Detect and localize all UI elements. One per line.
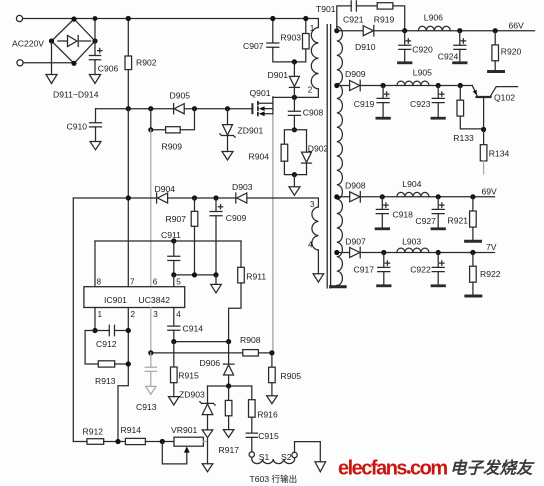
svg-text:D908: D908	[345, 180, 366, 190]
svg-text:L903: L903	[402, 236, 421, 246]
svg-text:T603 行输出: T603 行输出	[250, 473, 298, 484]
ground C922	[432, 284, 445, 287]
wire bridge right riser to bus1	[94, 19, 96, 42]
svg-text:C920: C920	[412, 44, 433, 54]
ground C920	[399, 61, 412, 64]
svg-text:L905: L905	[413, 68, 432, 78]
wire rail4 7V	[337, 252, 495, 254]
MOSFET Q901	[252, 97, 273, 116]
node rail VR901 tap	[160, 439, 165, 444]
logo elecfans.com	[338, 458, 447, 480]
wire bus2 Vcc rail	[96, 108, 253, 110]
svg-text:R920: R920	[501, 46, 522, 56]
svg-text:7V: 7V	[486, 242, 497, 252]
wire rail 66V	[337, 30, 535, 32]
svg-text:R133: R133	[453, 133, 474, 143]
resistor R911	[229, 241, 245, 342]
svg-text:R908: R908	[240, 335, 261, 345]
node rail3 C927	[436, 194, 441, 199]
node rail1 R920	[493, 28, 498, 33]
node rail1 C920	[402, 28, 407, 33]
capacitor C915	[246, 433, 257, 452]
svg-text:1: 1	[98, 310, 103, 319]
svg-text:D905: D905	[170, 90, 191, 100]
capacitor C910	[90, 109, 102, 142]
capacitor C924	[454, 31, 466, 62]
transistor Q102	[472, 86, 517, 130]
ground R917	[223, 430, 234, 438]
node tap2	[334, 83, 339, 88]
svg-text:C912: C912	[96, 339, 117, 349]
node bus1 C907	[270, 16, 275, 21]
node rail3 R921	[470, 194, 475, 199]
node line387 D906	[226, 383, 231, 388]
node bridge bottom	[71, 61, 76, 66]
ground R922	[466, 295, 481, 298]
ground R915	[169, 397, 180, 405]
svg-text:D903: D903	[232, 182, 253, 192]
wire to ground below D902	[293, 175, 295, 187]
node rail2 C919	[381, 83, 386, 88]
diode D901	[289, 62, 299, 98]
node Q102 emitter R133	[481, 127, 486, 132]
svg-text:C907: C907	[243, 41, 264, 51]
diode D910	[363, 25, 374, 36]
resistor R903	[294, 19, 309, 62]
svg-text:C906: C906	[98, 64, 119, 74]
node line1 left	[171, 339, 176, 344]
capacitor C909	[210, 198, 223, 275]
svg-text:8: 8	[97, 278, 102, 287]
resistor R917	[225, 386, 232, 430]
svg-text:69V: 69V	[482, 186, 498, 196]
node line1 right	[226, 339, 231, 344]
capacitor C917	[378, 253, 390, 285]
svg-text:UC3842: UC3842	[139, 295, 171, 305]
ground below D902	[289, 187, 300, 196]
zener ZD903	[200, 386, 215, 430]
ground C917	[378, 284, 391, 287]
svg-text:C919: C919	[354, 99, 375, 109]
svg-text:ZD903: ZD903	[179, 389, 205, 399]
node pin5 C911	[171, 272, 176, 277]
svg-text:2: 2	[131, 310, 136, 319]
node bus3 C909	[213, 195, 218, 200]
svg-text:R922: R922	[480, 269, 501, 279]
node R909 left corner	[148, 127, 153, 132]
svg-text:D904: D904	[155, 184, 176, 194]
wire stub ground pin5 rail	[215, 275, 217, 285]
wire pin5 stub	[173, 275, 175, 287]
diode D909	[350, 80, 361, 91]
capacitor C908	[288, 97, 300, 129]
ground C906	[89, 75, 100, 84]
svg-text:D901: D901	[268, 70, 289, 80]
resistor R134	[480, 130, 487, 175]
svg-text:R909: R909	[162, 142, 183, 152]
svg-text:IC901: IC901	[104, 295, 127, 305]
node C908 bottom	[292, 127, 297, 132]
capacitor C919	[377, 86, 389, 117]
IC U901 UC3842	[84, 287, 185, 308]
node snubber join	[292, 59, 297, 64]
svg-text:66V: 66V	[509, 21, 525, 31]
wire pin4 to ground	[317, 250, 319, 274]
node bus2 R902	[126, 106, 131, 111]
resistor R902	[125, 19, 132, 109]
node R904 D902 bottom	[292, 172, 297, 177]
node pin1 C912	[92, 328, 97, 333]
node tap3	[334, 194, 339, 199]
inductor L905	[397, 81, 429, 85]
svg-text:R912: R912	[83, 427, 104, 437]
svg-text:电子发烧友: 电子发烧友	[450, 459, 535, 478]
wire ZD903 lower stem	[207, 438, 209, 464]
node rail pin2	[115, 439, 120, 444]
node bridge left	[49, 38, 54, 43]
wire line387	[208, 385, 252, 387]
diode D904	[157, 193, 168, 203]
transformer T901 secondary winding	[337, 27, 343, 286]
svg-text:4: 4	[308, 241, 313, 250]
node bus2 R909 right	[192, 106, 197, 111]
ground C927	[432, 227, 445, 230]
svg-text:C915: C915	[258, 431, 279, 441]
capacitor C912	[95, 325, 128, 335]
resistor R907	[191, 198, 198, 275]
resistor R133	[457, 86, 484, 129]
svg-text:R907: R907	[166, 214, 187, 224]
node rail4 R922	[470, 250, 475, 255]
svg-text:D910: D910	[355, 42, 376, 52]
wire secondary bottom stem	[336, 284, 338, 287]
svg-text:R903: R903	[281, 33, 302, 43]
terminal S2	[292, 452, 297, 457]
resistor R909	[151, 109, 195, 133]
wire S2 to ground	[295, 442, 321, 462]
node line2 source	[269, 350, 274, 355]
resistor R905	[269, 353, 276, 396]
node tap4	[334, 250, 339, 255]
ground R905	[267, 396, 278, 404]
node bus1 R903	[303, 16, 308, 21]
inductor L906	[418, 26, 450, 30]
transformer core	[327, 25, 330, 288]
wire bottom rail	[73, 441, 87, 443]
capacitor C907 snubber	[267, 19, 295, 62]
svg-text:D911~D914: D911~D914	[53, 90, 99, 100]
transformer T901 primary winding 2	[312, 207, 318, 250]
ground bridge left	[46, 75, 57, 84]
svg-text:C917: C917	[354, 264, 375, 274]
ground ZD901	[222, 152, 233, 161]
capacitor C913	[145, 353, 156, 395]
node rail4 C922	[436, 250, 441, 255]
svg-text:R911: R911	[246, 271, 266, 281]
wire bus3 (D904/D903 line to transformer pin3)	[73, 198, 318, 207]
ground C923	[432, 117, 445, 120]
svg-text:C927: C927	[415, 216, 436, 226]
node pin2 C912	[126, 328, 131, 333]
node rail1 C924	[457, 28, 462, 33]
wire rail2	[337, 85, 473, 87]
node bus2 R909 left	[148, 106, 153, 111]
wire pin5 rail	[174, 274, 216, 276]
wire line2 pin3 to source column	[151, 352, 272, 354]
terminal AC input top	[16, 15, 22, 21]
capacitor C918	[376, 197, 388, 228]
svg-text:ZD901: ZD901	[238, 125, 264, 135]
wire pin3 column	[150, 308, 152, 353]
node tap1	[334, 28, 339, 33]
potentiometer VR901	[162, 437, 203, 464]
ground ZD903 upper	[202, 430, 213, 438]
diode D908	[350, 192, 361, 203]
svg-text:R921: R921	[448, 215, 469, 225]
svg-text:Q901: Q901	[250, 88, 271, 98]
svg-text:2: 2	[308, 86, 313, 95]
svg-text:R902: R902	[136, 58, 157, 68]
svg-text:R913: R913	[95, 376, 116, 386]
svg-text:D906: D906	[200, 358, 221, 368]
wire pin4 stub	[173, 308, 175, 326]
svg-text:Q102: Q102	[494, 92, 515, 102]
svg-text:C910: C910	[67, 122, 88, 132]
ground S2	[315, 462, 326, 472]
resistor R904	[281, 130, 306, 175]
wire rail3 69V	[337, 196, 495, 198]
wire pin2 column	[118, 308, 128, 442]
node bridge top	[71, 16, 76, 21]
diode D906	[223, 342, 234, 386]
svg-text:T901: T901	[316, 4, 336, 14]
svg-text:R915: R915	[178, 371, 199, 381]
capacitor C911	[168, 241, 180, 275]
ground R920	[489, 70, 504, 73]
wire AC bottom to bridge	[23, 62, 74, 64]
node rail4 C917	[381, 250, 386, 255]
node bus3 pin7 column	[126, 195, 131, 200]
node bus3 R907	[192, 195, 197, 200]
capacitor C914	[168, 326, 180, 342]
capacitor C920	[399, 31, 411, 62]
wire rail to ZD903 column	[203, 441, 206, 443]
ground C918	[376, 227, 389, 230]
svg-text:C908: C908	[303, 108, 324, 118]
svg-text:C924: C924	[438, 52, 459, 62]
wire C911 top rail	[95, 240, 241, 242]
svg-text:AC220V: AC220V	[12, 39, 44, 49]
svg-text:R917: R917	[219, 445, 240, 455]
resistor R913	[85, 331, 128, 368]
wire pin8 column	[94, 241, 96, 287]
node R907 bottom	[192, 272, 197, 277]
svg-text:3: 3	[310, 200, 315, 209]
node rail2 R133	[458, 83, 463, 88]
resistor R919	[377, 3, 405, 31]
ground pin5 rail	[211, 284, 222, 293]
node C911 top	[171, 238, 176, 243]
svg-text:C911: C911	[161, 230, 181, 240]
wire pin1 stub	[94, 308, 96, 331]
node bridge right	[92, 38, 97, 43]
node rail2 C923	[436, 83, 441, 88]
zener ZD901	[220, 109, 235, 152]
node rail3 C918	[380, 194, 385, 199]
resistor R915	[171, 342, 178, 397]
resistor R912	[87, 439, 125, 445]
node drain D901 C908	[292, 95, 297, 100]
diode D903	[236, 193, 247, 203]
winding T603	[252, 457, 295, 463]
ground R921	[466, 240, 481, 243]
svg-text:elecfans●com: elecfans●com	[338, 458, 447, 480]
svg-text:3: 3	[153, 310, 158, 319]
svg-text:S2: S2	[281, 452, 292, 462]
inductor L904	[397, 192, 429, 196]
ground ZD903 lower	[202, 464, 213, 472]
capacitor C927	[432, 197, 444, 228]
svg-text:R905: R905	[281, 371, 302, 381]
inductor L903	[397, 248, 429, 252]
wire drain node to transformer pin2	[273, 89, 319, 98]
diode D907	[350, 247, 361, 258]
svg-text:D907: D907	[345, 236, 366, 246]
svg-text:R914: R914	[121, 425, 142, 435]
svg-text:C914: C914	[183, 324, 204, 334]
svg-text:D909: D909	[345, 69, 366, 79]
svg-text:R134: R134	[489, 148, 510, 158]
svg-text:R916: R916	[257, 410, 278, 420]
node C909 bottom	[213, 272, 218, 277]
svg-text:4: 4	[176, 310, 181, 319]
capacitor C923	[432, 86, 444, 117]
svg-text:C918: C918	[392, 210, 413, 220]
node line2 pin3	[148, 350, 153, 355]
wire bus1 top rail	[23, 19, 319, 28]
svg-text:6: 6	[153, 278, 158, 287]
resistor R908	[243, 350, 259, 356]
node R902 bus1	[126, 16, 131, 21]
svg-text:C922: C922	[410, 264, 431, 274]
svg-text:R919: R919	[374, 15, 395, 25]
svg-text:C913: C913	[136, 402, 157, 412]
diode D902	[302, 130, 312, 175]
svg-text:D902: D902	[308, 143, 329, 153]
ground C924	[454, 61, 467, 64]
resistor R916	[249, 386, 256, 433]
svg-text:C921: C921	[343, 15, 364, 25]
node bus2 ZD901	[225, 106, 230, 111]
diode D905	[174, 104, 185, 114]
svg-text:1: 1	[310, 24, 315, 33]
svg-text:L904: L904	[402, 179, 421, 189]
terminal S1	[249, 452, 254, 457]
node pin2 R913	[126, 361, 131, 366]
resistor R922	[470, 253, 477, 295]
resistor R920	[492, 31, 499, 70]
transformer T901 primary winding 1	[311, 28, 318, 89]
svg-text:L906: L906	[424, 13, 443, 23]
ground C910	[90, 142, 101, 150]
wire left loop vertical	[72, 198, 74, 442]
svg-text:VR901: VR901	[171, 425, 197, 435]
wire line1 C914 to D906	[174, 341, 229, 343]
svg-text:C923: C923	[410, 99, 431, 109]
capacitor C921	[351, 1, 356, 11]
node riser on bus1	[93, 16, 98, 21]
ground pin4	[313, 274, 324, 282]
svg-text:7: 7	[130, 278, 135, 287]
wire bridge left to ground	[51, 41, 53, 75]
svg-text:C909: C909	[226, 213, 247, 223]
capacitor C922	[432, 253, 444, 285]
svg-text:R904: R904	[249, 152, 270, 162]
wire pin7 column (bus2 to IC pin 7)	[127, 109, 129, 287]
terminal AC input bottom	[17, 60, 23, 66]
ground C919	[377, 117, 390, 120]
ground secondary bottom	[331, 285, 346, 288]
svg-text:S1: S1	[259, 452, 270, 462]
svg-text:5: 5	[176, 278, 181, 287]
resistor R921	[470, 197, 477, 240]
wire pin6 column (bus2 to IC pin 6)	[150, 130, 152, 287]
capacitor C906	[89, 41, 102, 75]
resistor R914	[125, 438, 174, 444]
bridge rectifier D911~D914	[52, 19, 96, 63]
wire Q901 source column	[272, 115, 274, 353]
capacitor C921 R919 snubber branch	[337, 6, 377, 31]
